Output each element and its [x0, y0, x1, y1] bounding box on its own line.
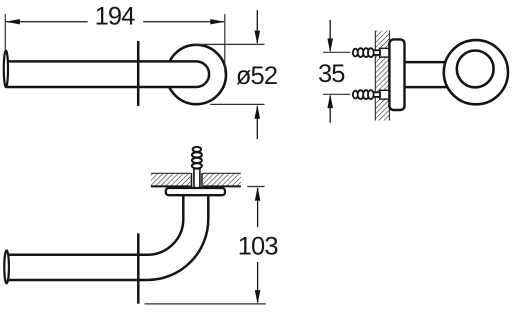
- dim 103: upper extension dash at wall surface: [247, 186, 264, 188]
- wall plate (top view, edge-on): [166, 188, 225, 195]
- arm outer edge + bar bottom line (90 deg bend): [7, 195, 209, 280]
- bar end ring: outer bend contour: [444, 40, 508, 104]
- upper screw (threaded, pointing left): [353, 48, 380, 57]
- screw shaft (top view): [194, 169, 200, 188]
- dim 103: lower leader with down arrowhead: [257, 262, 259, 303]
- dim o52: top extension line: [194, 43, 265, 45]
- dim 194: left arrowhead: [6, 19, 20, 24]
- dim 103: bottom extension line: [145, 303, 267, 305]
- bar (horizontal tube, rounded end over rosette): [7, 61, 209, 87]
- dim 194: right arrowhead: [210, 19, 224, 24]
- svg-text:ø52: ø52: [236, 62, 277, 90]
- wall plate (rosette edge-on): [389, 39, 404, 110]
- joint ring tick on bar (top view): [137, 233, 140, 303]
- bar left end cap: [4, 50, 8, 87]
- dim o52: upper leader with down arrowhead: [256, 10, 258, 43]
- arm inner edge + bar top line (90 deg bend): [7, 195, 184, 255]
- bar end ring: tube end: [457, 51, 494, 88]
- wall section (hatched, horizontal): [151, 173, 241, 186]
- wall surface line: [151, 185, 241, 187]
- arm tube (side view): [404, 61, 446, 64]
- dim 194: right extension line: [224, 14, 226, 73]
- dim 35: upper extension dash: [323, 51, 350, 53]
- dim 103: upper leader with up arrowhead: [257, 188, 259, 227]
- wall section (hatched, vertical): [375, 31, 389, 121]
- upper screw hole through wall: [380, 48, 391, 57]
- dim 35: upper leader with down arrowhead: [329, 20, 331, 51]
- dim o52: bottom extension line: [210, 103, 264, 105]
- dim 35: lower leader with up arrowhead: [329, 96, 331, 123]
- screw hole through wall (top view): [191, 173, 203, 188]
- dim 35: lower extension dash: [323, 93, 350, 95]
- dim 194: left extension line: [4, 14, 6, 49]
- svg-text:35: 35: [318, 60, 345, 88]
- screw threads (top view, pointing up): [192, 147, 202, 169]
- dim o52: lower leader with up arrowhead: [256, 106, 258, 139]
- lower screw hole through wall: [380, 90, 391, 99]
- wall rosette circle o52: [167, 45, 226, 104]
- joint ring tick on bar: [137, 41, 140, 106]
- dim 194: dimension line: [6, 21, 88, 23]
- lower screw (threaded, pointing left): [353, 90, 380, 99]
- bar left end cap (top view): [4, 250, 9, 283]
- svg-text:103: 103: [238, 233, 279, 261]
- svg-text:194: 194: [95, 3, 136, 31]
